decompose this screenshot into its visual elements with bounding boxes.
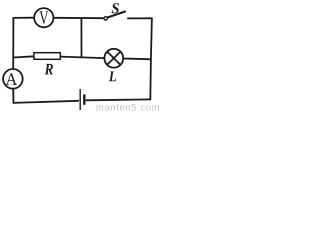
wire: center vertical (top rail to middle rail) [80, 18, 82, 58]
wire: middle rail right segment [123, 58, 151, 61]
wire: top rail right segment [127, 17, 152, 19]
lamp L1 [104, 49, 123, 82]
wire: top rail middle segment [54, 17, 104, 19]
switch S [104, 3, 126, 20]
wire: middle rail left segment [13, 56, 34, 57]
battery B1 [80, 89, 84, 110]
wire: bottom rail left segment [13, 101, 79, 103]
wire: bottom rail right segment [86, 98, 151, 101]
wire: left vertical lower [12, 89, 14, 104]
wire: middle rail center segment [60, 57, 104, 59]
wire: left vertical upper [12, 17, 14, 69]
resistor R [34, 53, 60, 75]
wire: top rail left segment [13, 17, 34, 19]
voltmeter V1 [34, 8, 53, 27]
wire: right vertical [150, 18, 152, 101]
ammeter A1 [3, 69, 23, 89]
